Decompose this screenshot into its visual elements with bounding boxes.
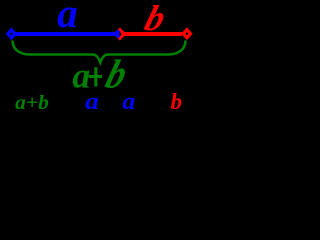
svg-text:a: a: [122, 89, 135, 115]
svg-text:a+b: a+b: [15, 92, 49, 114]
svg-text:b: b: [141, 0, 171, 38]
svg-text:b: b: [171, 89, 182, 114]
svg-text:a: a: [57, 0, 77, 36]
svg-text:a: a: [85, 89, 99, 115]
